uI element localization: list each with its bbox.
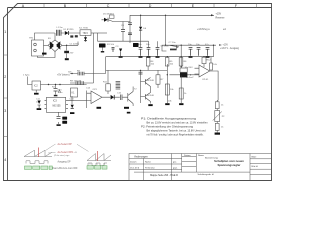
svg-text:1: 1 bbox=[4, 30, 6, 34]
svg-text:NE 555: NE 555 bbox=[53, 105, 62, 108]
svg-text:+13.8Vreg a: +13.8Vreg a bbox=[197, 28, 210, 31]
svg-text:IC3: IC3 bbox=[53, 100, 57, 103]
svg-text:Änderungen: Änderungen bbox=[134, 156, 148, 159]
svg-text:Datum: Datum bbox=[184, 154, 191, 157]
svg-text:3: 3 bbox=[4, 109, 6, 113]
svg-text:Blatt:: Blatt: bbox=[252, 156, 257, 159]
svg-text:Au-S-wert OP2 -: Au-S-wert OP2 - bbox=[58, 151, 75, 154]
svg-text:25V: 25V bbox=[70, 53, 74, 55]
svg-text:Reserve: Reserve bbox=[216, 17, 226, 20]
svg-text:Name: Name bbox=[198, 155, 205, 157]
svg-text:Schaltplan vom neuen: Schaltplan vom neuen bbox=[214, 159, 244, 163]
svg-text:Name: Name bbox=[145, 162, 152, 164]
svg-text:7815: 7815 bbox=[83, 32, 89, 35]
svg-text:1 Sync: 1 Sync bbox=[23, 75, 31, 77]
svg-text:H.Gericke: H.Gericke bbox=[145, 166, 156, 169]
svg-text:D: D bbox=[149, 4, 152, 8]
svg-text:Mappe Seite 293 - HGE R: Mappe Seite 293 - HGE R bbox=[150, 174, 178, 177]
svg-text:C? 10n: C? 10n bbox=[169, 42, 177, 44]
svg-text:L1 2m: L1 2m bbox=[57, 27, 63, 29]
svg-text:Spannungsregler: Spannungsregler bbox=[217, 163, 241, 167]
svg-text:Au-S-wert OP: Au-S-wert OP bbox=[58, 143, 73, 146]
svg-text:OP1: OP1 bbox=[93, 89, 98, 91]
svg-text:IC2: IC2 bbox=[34, 85, 38, 88]
svg-text:100n: 100n bbox=[58, 92, 64, 94]
svg-text:2: 2 bbox=[4, 75, 6, 79]
svg-text:P2: Feineinstellung der Gleic: P2: Feineinstellung der Gleichspannung bbox=[141, 125, 194, 128]
svg-text:Kann-Bl-zum-zum IRF: Kann-Bl-zum-zum IRF bbox=[53, 168, 79, 170]
svg-text:C1 2200u: C1 2200u bbox=[70, 43, 80, 45]
svg-text:Bei abgeglichenem Tastverh. be: Bei abgeglichenem Tastverh. bei ca. 13.8… bbox=[147, 129, 207, 132]
svg-text:Schaltungsda. bl: Schaltungsda. bl bbox=[198, 173, 215, 176]
svg-text:Ausgang OP: Ausgang OP bbox=[58, 161, 71, 164]
svg-text:+15V: +15V bbox=[216, 13, 222, 16]
svg-text:+13.8 V - Ausgang: +13.8 V - Ausgang bbox=[220, 47, 240, 50]
svg-text:D5 1N4001: D5 1N4001 bbox=[103, 13, 115, 15]
svg-text:R1 10k: R1 10k bbox=[107, 44, 115, 46]
svg-text:P1: Detaillierte Ausgangsspan: P1: Detaillierte Ausgangsspannung bbox=[141, 117, 197, 120]
svg-text:OP-01: OP-01 bbox=[202, 79, 209, 81]
svg-text:D1 BY255: D1 BY255 bbox=[64, 29, 75, 31]
svg-text:C: C bbox=[107, 4, 110, 8]
svg-text:IC1 7815: IC1 7815 bbox=[79, 28, 89, 30]
svg-text:16.1.03 b: 16.1.03 b bbox=[130, 167, 140, 169]
svg-text:+5V (intern): +5V (intern) bbox=[57, 73, 70, 76]
svg-text:ext: ext bbox=[223, 28, 226, 31]
svg-text:mit 78 Volt / unruhig / oder a: mit 78 Volt / unruhig / oder auch Regelv… bbox=[147, 133, 204, 136]
svg-text:C6 100n: C6 100n bbox=[161, 46, 170, 48]
svg-text:Bl.d.H.: Bl.d.H. bbox=[252, 166, 259, 168]
svg-text:BC548: BC548 bbox=[147, 95, 154, 97]
svg-text:Bei ca. 13.8V erreicht und wir: Bei ca. 13.8V erreicht und wird am ca. 1… bbox=[147, 121, 209, 124]
svg-text:ca.1mV: ca.1mV bbox=[186, 77, 194, 79]
svg-text:4: 4 bbox=[4, 158, 6, 162]
svg-text:(P-für artw.) sign: (P-für artw.) sign bbox=[54, 154, 70, 157]
svg-text:gez.: gez. bbox=[173, 162, 177, 164]
svg-text:10u/16V: 10u/16V bbox=[185, 67, 194, 69]
svg-text:BC548: BC548 bbox=[147, 80, 154, 82]
svg-text:gepr.: gepr. bbox=[173, 167, 178, 169]
svg-text:Datum: Datum bbox=[130, 161, 137, 164]
svg-text:+15V: +15V bbox=[223, 45, 229, 47]
